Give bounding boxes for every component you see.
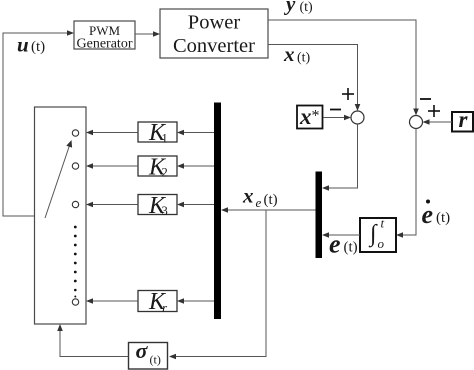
wire K2 to selector bbox=[86, 163, 138, 169]
wire r to sum2 bbox=[423, 119, 453, 125]
wire sigma to selector box bottom bbox=[57, 324, 128, 357]
svg-text:σ: σ bbox=[136, 338, 149, 363]
block selector (big box) bbox=[35, 107, 87, 324]
wire integrator to bar2, e(t) bbox=[322, 232, 360, 238]
block K3 bbox=[138, 193, 177, 219]
wire xe(t) from bar2 to bar1 bbox=[221, 207, 316, 213]
wire Kr to selector bbox=[86, 298, 138, 304]
wire bar1 to K3 bbox=[177, 202, 214, 208]
block integrator bbox=[360, 216, 396, 253]
svg-text:x: x bbox=[242, 184, 254, 208]
selector contact circle c2 bbox=[72, 163, 78, 169]
selector contact circle c3 bbox=[72, 201, 78, 207]
label xe(t) bbox=[242, 184, 278, 211]
block K1 bbox=[138, 120, 177, 146]
block K2 bbox=[138, 155, 177, 181]
wire branch from xe line down to sigma bbox=[169, 210, 266, 359]
svg-text:x: x bbox=[299, 104, 312, 129]
svg-text:(t): (t) bbox=[300, 0, 314, 15]
dotted column inside selector bbox=[74, 226, 77, 298]
svg-text:3: 3 bbox=[162, 204, 168, 218]
sign plus at sum1 top bbox=[342, 88, 354, 100]
wire K1 to selector bbox=[86, 130, 138, 136]
svg-text:e: e bbox=[329, 230, 341, 259]
block PWM Generator bbox=[74, 21, 135, 52]
svg-text:2: 2 bbox=[162, 166, 168, 180]
sign minus at sum1 left bbox=[330, 109, 341, 111]
wire PWM to Power Converter bbox=[135, 31, 160, 37]
wire bar1 to K2 bbox=[177, 163, 214, 169]
wire u(t) feedback from selector box to PWM bbox=[3, 30, 74, 216]
block Power Converter bbox=[160, 9, 268, 58]
block sigma(t) bbox=[129, 338, 168, 369]
selector contact circle c1 bbox=[72, 130, 78, 136]
svg-text:t: t bbox=[381, 216, 385, 231]
selector contact circle c4 bbox=[72, 299, 78, 305]
wire sum2 output to integrator bbox=[396, 129, 416, 238]
svg-text:(t): (t) bbox=[297, 51, 311, 66]
label e(t) bbox=[329, 230, 358, 259]
label x(t) bbox=[283, 42, 311, 66]
selector wiper arrow bbox=[45, 140, 72, 218]
svg-text:Converter: Converter bbox=[173, 35, 255, 57]
svg-text:(t): (t) bbox=[150, 353, 161, 367]
sign minus at sum2 top bbox=[420, 98, 431, 100]
wire bar1 to Kr bbox=[177, 298, 214, 304]
wire K3 to selector bbox=[86, 202, 138, 208]
summing junction sum1 bbox=[351, 111, 364, 124]
label edot(t) bbox=[422, 200, 451, 230]
label u(t) bbox=[17, 33, 45, 57]
wire sum1 output to bar2 bbox=[322, 124, 358, 191]
bar1 vertical thick bar bbox=[214, 103, 221, 320]
wire bar1 to K1 bbox=[177, 130, 214, 136]
svg-text:x: x bbox=[283, 42, 295, 66]
svg-text:(t): (t) bbox=[344, 240, 358, 256]
svg-text:Power: Power bbox=[188, 12, 241, 34]
svg-text:*: * bbox=[312, 108, 320, 125]
svg-text:Generator: Generator bbox=[77, 37, 133, 52]
sign plus at sum2 right bbox=[428, 105, 440, 117]
svg-text:(t): (t) bbox=[264, 192, 278, 208]
wire x(t) from Power Converter to sum1 bbox=[268, 45, 360, 112]
bar2 vertical thick bar bbox=[316, 172, 323, 259]
summing junction sum2 bbox=[410, 116, 423, 129]
svg-text:u: u bbox=[17, 33, 29, 57]
block r reference bbox=[452, 107, 473, 132]
svg-text:(t): (t) bbox=[436, 210, 450, 226]
svg-text:(t): (t) bbox=[31, 39, 45, 55]
block Kr bbox=[138, 289, 177, 315]
svg-text:e: e bbox=[422, 200, 434, 229]
svg-text:e: e bbox=[256, 195, 262, 210]
wire y(t) from Power Converter to sum2 bbox=[268, 20, 419, 116]
block x* reference bbox=[297, 104, 323, 129]
svg-text:∫: ∫ bbox=[368, 221, 378, 248]
wire x* to sum1 bbox=[323, 115, 351, 121]
svg-text:r: r bbox=[459, 107, 469, 132]
svg-text:o: o bbox=[378, 236, 385, 251]
svg-text:1: 1 bbox=[162, 132, 168, 146]
label y(t) bbox=[283, 0, 313, 16]
